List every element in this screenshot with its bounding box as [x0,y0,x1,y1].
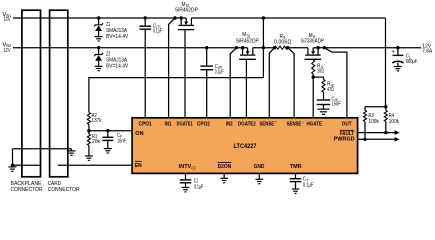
wire pull-up tee [365,105,387,108]
transistor MD2 [230,46,256,119]
label card connector [48,181,80,193]
wire EN short pin [58,164,133,166]
pin SENSE- [287,119,305,127]
label Z2 [106,51,128,69]
svg-text:0.1µF: 0.1µF [215,69,224,75]
capacitor CF [102,129,113,153]
ground card connector [68,149,76,156]
wire diode-OR top rail [191,17,385,19]
op-amp U1 LTC4227 body [132,118,358,174]
resistor R3 [363,107,366,141]
pin INTVCC [179,164,196,170]
svg-text:0.006Ω: 0.006Ω [274,40,292,46]
label VIN2 [2,42,11,54]
svg-text:47Ω: 47Ω [327,87,334,93]
node SENSE+ tap on top rail [262,16,265,77]
svg-text:OUT: OUT [342,121,352,127]
pin CPO2 [197,121,210,127]
resistor RH [312,59,315,77]
svg-text:D2ON: D2ON [218,164,232,170]
svg-text:20k: 20k [92,139,100,145]
label VIN1 [2,12,11,23]
svg-text:DGATE2: DGATE2 [238,121,256,127]
svg-text:BV=14.4V: BV=14.4V [106,34,128,40]
svg-text:0.1µF: 0.1µF [153,28,162,34]
svg-text:DGATE1: DGATE1 [177,121,193,127]
label MH [301,33,324,44]
svg-text:EN: EN [135,163,142,169]
label CHG [332,97,342,108]
pin IN1 [165,121,172,127]
wire SENSE- [288,48,294,119]
pin DGATE2 [238,121,256,127]
label R3 [368,113,379,125]
label RH [317,63,324,74]
label CL [406,54,418,65]
label backplane connector [11,181,43,193]
svg-text:Si7336ADP: Si7336ADP [301,38,324,44]
pin EN [135,161,142,169]
svg-text:Z1: Z1 [106,22,110,28]
pin HGATE [307,121,323,127]
wire RS to MH drain [288,47,308,49]
backplane connector [22,10,41,177]
pin GND [254,164,265,170]
label MD1 [175,2,198,14]
svg-text:PWRGD: PWRGD [334,137,355,143]
label RS [274,34,292,45]
svg-text:TMR: TMR [290,164,302,170]
wire MD2 drain to RS [253,47,275,49]
svg-text:HGATE: HGATE [307,121,323,127]
svg-text:IN2: IN2 [226,121,233,127]
pin FAULT [340,130,355,137]
card connector [50,10,68,177]
wire connector ground pin [13,148,72,150]
label MD2 [236,32,259,44]
wire FAULT out [358,130,400,135]
pin TMR [290,164,302,170]
label R2 [92,113,102,124]
svg-text:SENSE: SENSE [260,121,275,127]
pin SENSE+ [260,119,278,127]
capacitor CT [290,173,302,193]
svg-text:SiR462DP: SiR462DP [175,8,198,14]
svg-text:GND: GND [254,164,265,170]
zener Z1 [94,16,103,41]
wire PWRGD out [358,137,400,142]
ground GND pin [256,173,264,183]
label R1 [92,134,100,145]
wire divider feed [89,78,264,113]
svg-text:0.1µF: 0.1µF [194,184,204,190]
pin OUT [342,121,352,127]
resistor R1 [85,131,93,161]
svg-text:BV=14.4V: BV=14.4V [106,63,128,69]
label C1 [194,178,204,190]
pin DGATE1 [177,121,193,127]
ground D2ON [220,173,228,182]
svg-text:CC: CC [191,166,196,171]
wire ON [89,130,132,132]
svg-text:0.1µF: 0.1µF [303,183,314,189]
svg-text:100k: 100k [389,119,400,125]
pin D2ON [218,162,232,170]
svg-text:CONNECTOR: CONNECTOR [11,187,43,193]
ground backplane chassis [9,164,17,172]
label CF [117,133,126,145]
svg-text:LTC4227: LTC4227 [234,144,258,150]
svg-text:137k: 137k [92,118,102,124]
resistor RS [273,46,290,49]
svg-text:12V: 12V [4,17,11,23]
svg-text:IN1: IN1 [165,121,172,127]
resistor R2 [87,112,90,132]
svg-text:12V: 12V [4,48,11,54]
resistor R4 [384,107,387,135]
wire MH source to output [313,47,421,49]
pin PWRGD [334,137,355,143]
svg-text:CONNECTOR: CONNECTOR [48,187,80,193]
label Z1 [106,22,128,40]
pin IN2 [226,121,233,127]
svg-text:10nF: 10nF [117,139,126,145]
capacitor CL [391,46,403,71]
pin ON [135,131,143,137]
svg-text:CPO1: CPO1 [139,121,152,127]
svg-text:SENSE: SENSE [287,121,302,127]
label CCP2 [215,64,224,75]
svg-text:CPO2: CPO2 [197,121,210,127]
wire backplane ground drop [13,149,41,166]
label output 12V [422,43,432,54]
zener Z2 [94,46,103,71]
svg-text:INTV: INTV [179,164,192,170]
capacitor CHG [317,92,331,114]
svg-text:100k: 100k [368,119,379,125]
wire VIN1 rail [13,17,186,19]
svg-text:ON: ON [135,131,143,137]
wire SENSE+ [269,48,274,119]
transistor MH [305,46,347,119]
svg-text:7.6A: 7.6A [422,49,432,55]
svg-text:10Ω: 10Ω [317,69,324,75]
label CCP1 [153,23,162,34]
svg-text:15nF: 15nF [332,102,342,108]
label LTC4227 [234,144,258,150]
label CT [303,177,314,189]
resistor RHG [313,77,325,92]
capacitor CCP2 [200,46,213,119]
capacitor CCP1 [139,16,151,118]
wire top rail drop to pull-ups [385,18,387,107]
label R4 [389,113,400,125]
wire HGATE [312,75,315,118]
transistor MD1 [169,16,195,118]
label RHG [327,82,334,93]
pin CPO1 [139,121,152,127]
capacitor C1 [180,173,192,192]
wire VIN2 rail [13,47,248,49]
svg-text:680µF: 680µF [406,59,418,65]
svg-text:SiR462DP: SiR462DP [236,38,259,44]
